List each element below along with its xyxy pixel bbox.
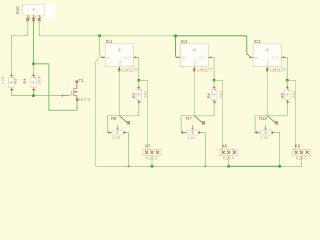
svg-text:R10: R10 bbox=[259, 116, 267, 121]
svg-text:R4: R4 bbox=[22, 78, 27, 84]
svg-text:OUT: OUT bbox=[124, 56, 132, 60]
svg-text:2.2K: 2.2K bbox=[0, 76, 5, 85]
svg-text:100K: 100K bbox=[36, 75, 41, 85]
svg-text:2.2K: 2.2K bbox=[112, 135, 121, 140]
svg-text:IN: IN bbox=[107, 56, 111, 60]
svg-text:K10: K10 bbox=[15, 6, 20, 14]
svg-text:2.2K: 2.2K bbox=[187, 135, 196, 140]
svg-text:K9: K9 bbox=[295, 143, 301, 148]
svg-text:R5: R5 bbox=[131, 92, 136, 98]
svg-text:ADJ: ADJ bbox=[266, 59, 270, 66]
svg-text:IN: IN bbox=[182, 56, 186, 60]
svg-text:R6: R6 bbox=[206, 92, 211, 98]
svg-text:IN: IN bbox=[255, 56, 259, 60]
svg-text:T1: T1 bbox=[79, 78, 85, 83]
svg-text:K7: K7 bbox=[145, 143, 151, 148]
svg-text:IC3: IC3 bbox=[254, 39, 261, 44]
svg-text:240: 240 bbox=[143, 91, 148, 98]
svg-text:BS170: BS170 bbox=[78, 97, 91, 102]
svg-text:OUT: OUT bbox=[272, 56, 280, 60]
svg-text:OUT: OUT bbox=[199, 56, 207, 60]
svg-text:K8: K8 bbox=[222, 143, 228, 148]
svg-text:ADJ: ADJ bbox=[193, 59, 197, 66]
svg-text:LM317T: LM317T bbox=[197, 68, 213, 73]
svg-text:LM317T: LM317T bbox=[270, 68, 286, 73]
svg-text:LM317T: LM317T bbox=[122, 68, 138, 73]
svg-text:IC1: IC1 bbox=[106, 39, 113, 44]
svg-text:2.2K: 2.2K bbox=[260, 135, 269, 140]
svg-text:IC2: IC2 bbox=[181, 39, 188, 44]
svg-text:240: 240 bbox=[218, 91, 223, 98]
svg-text:R7: R7 bbox=[186, 116, 192, 121]
svg-text:R9: R9 bbox=[111, 116, 117, 121]
svg-text:ADJ: ADJ bbox=[118, 59, 122, 66]
svg-text:K10.5: K10.5 bbox=[296, 155, 308, 160]
svg-text:240: 240 bbox=[291, 91, 296, 98]
svg-text:R8: R8 bbox=[279, 92, 284, 98]
